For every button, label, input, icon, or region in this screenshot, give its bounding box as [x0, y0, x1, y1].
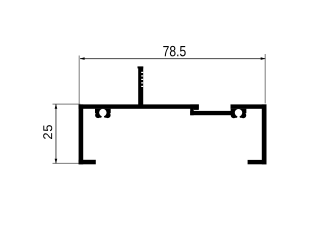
profile flange end lip: [194, 104, 199, 110]
dimension 78.5 arrow left: [80, 57, 85, 60]
right screw port right lobe: [240, 112, 246, 118]
profile right wall: [262, 104, 267, 164]
profile left foot: [79, 160, 96, 165]
dimension 78.5 extension line right: [264, 54, 266, 103]
left screw port right tip: [104, 115, 107, 118]
dimension 25 arrow bottom: [55, 159, 58, 164]
left screw port left lobe: [95, 112, 101, 118]
profile top fin: [138, 67, 143, 105]
fin tip cap: [138, 66, 144, 68]
right screw port left lobe: [231, 112, 237, 118]
fin serration notch 3: [141, 79, 143, 80]
fin serration notch 2: [141, 75, 143, 76]
fin serration notch 1: [141, 72, 143, 73]
left screw port left tip: [99, 115, 102, 118]
dimension 25 extension line top: [53, 103, 81, 105]
left screw port bore: [99, 109, 106, 116]
dimension 25 line: [55, 104, 57, 164]
fin serration notch 5: [141, 86, 143, 87]
dimension 25 arrow top: [55, 104, 58, 109]
dimension 78.5 arrow right: [261, 57, 266, 60]
dimension 25 label: [43, 125, 52, 139]
profile right foot: [248, 160, 267, 164]
profile top flange right segment: [231, 104, 267, 108]
right screw port left tip: [235, 115, 238, 118]
profile left wall: [79, 104, 84, 164]
dimension 78.5 line: [80, 58, 265, 60]
profile lower recessed flange: [190, 111, 234, 115]
fin serration notch 4: [141, 82, 143, 83]
profile step connector: [190, 104, 194, 115]
dimension 25 extension line bottom: [53, 162, 80, 164]
right screw port right tip: [240, 115, 243, 118]
profile top flange left segment: [79, 104, 199, 108]
left screw port right lobe: [105, 112, 111, 118]
dimension 78.5 extension line left: [78, 56, 80, 105]
left screw port body: [95, 109, 111, 114]
right screw port body: [231, 109, 247, 114]
right screw port bore: [235, 109, 242, 116]
dimension 78.5 label: [163, 46, 185, 56]
